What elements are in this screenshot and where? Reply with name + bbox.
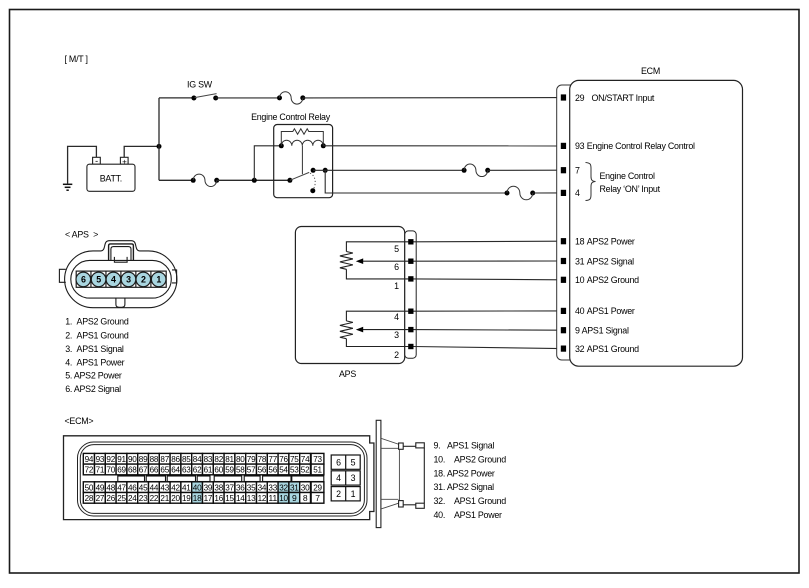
svg-text:21: 21	[160, 493, 169, 503]
svg-text:87: 87	[160, 454, 169, 464]
svg-text:7: 7	[575, 166, 580, 176]
svg-text:10: 10	[575, 275, 585, 285]
svg-text:1. APS2 Ground: 1. APS2 Ground	[65, 316, 129, 326]
connector ECM mounting bar	[376, 420, 381, 527]
svg-text:32. APS1 Ground: 32. APS1 Ground	[434, 496, 507, 506]
relay switch	[287, 168, 327, 193]
svg-text:APS1 Ground: APS1 Ground	[587, 344, 639, 354]
svg-text:6: 6	[336, 457, 341, 467]
svg-text:1: 1	[394, 281, 399, 291]
brace: pins 7 and 4 group	[586, 163, 596, 201]
svg-text:40: 40	[193, 482, 202, 492]
svg-text:18: 18	[193, 493, 202, 503]
svg-text:51: 51	[313, 465, 322, 475]
svg-text:46: 46	[128, 482, 137, 492]
svg-text:93: 93	[96, 454, 105, 464]
svg-text:52: 52	[301, 465, 310, 475]
connector APS pin 6	[76, 272, 91, 287]
svg-text:15: 15	[225, 493, 234, 503]
svg-text:22: 22	[150, 493, 159, 503]
potentiometer APS1	[340, 311, 409, 346]
svg-text:93: 93	[575, 141, 585, 151]
ECM pin 7	[561, 166, 580, 176]
svg-text:6. APS2 Signal: 6. APS2 Signal	[65, 384, 121, 394]
connector APS front view shell	[59, 241, 176, 308]
svg-text:11: 11	[268, 493, 277, 503]
wire: main feed vertical	[158, 98, 160, 180]
wire: ground to battery negative	[68, 146, 97, 184]
svg-text:33: 33	[268, 482, 277, 492]
wire: APS pin 2 to ECM 32	[414, 347, 561, 349]
svg-text:64: 64	[171, 465, 180, 475]
svg-text:77: 77	[268, 454, 277, 464]
svg-text:14: 14	[236, 493, 245, 503]
svg-text:18. APS2 Power: 18. APS2 Power	[434, 468, 495, 478]
connector APS pin 1	[151, 272, 166, 287]
svg-text:39: 39	[204, 482, 213, 492]
svg-text:75: 75	[290, 454, 299, 464]
APS strip pin 4	[408, 309, 413, 314]
svg-text:65: 65	[160, 465, 169, 475]
wire: relay contact down to ECM pin 4	[325, 170, 507, 193]
svg-text:9: 9	[292, 493, 297, 503]
ECM pin 31	[561, 256, 634, 266]
wire: feed to IG SW	[159, 97, 194, 99]
svg-text:35: 35	[247, 482, 256, 492]
wire: APS pin 6 to ECM 31	[414, 260, 561, 262]
svg-text:67: 67	[139, 465, 148, 475]
svg-text:44: 44	[150, 482, 159, 492]
svg-text:4: 4	[336, 473, 341, 483]
svg-text:31: 31	[290, 482, 299, 492]
svg-text:20: 20	[171, 493, 180, 503]
svg-text:APS2 Ground: APS2 Ground	[587, 275, 639, 285]
svg-text:61: 61	[204, 465, 213, 475]
svg-text:10. APS2 Ground: 10. APS2 Ground	[434, 455, 507, 465]
svg-text:40. APS1 Power: 40. APS1 Power	[434, 510, 503, 520]
svg-text:60: 60	[214, 465, 223, 475]
svg-text:56: 56	[268, 465, 277, 475]
svg-text:IG SW: IG SW	[187, 79, 213, 89]
svg-text:24: 24	[128, 493, 137, 503]
svg-text:29: 29	[575, 93, 585, 103]
svg-text:ECM: ECM	[641, 66, 660, 76]
fuse F1 (IG SW line)	[277, 92, 305, 104]
relay resistor	[281, 129, 323, 146]
svg-text:31: 31	[575, 256, 585, 266]
svg-text:<ECM>: <ECM>	[65, 416, 94, 426]
svg-text:38: 38	[214, 482, 223, 492]
connector ECM keying bars	[118, 476, 324, 482]
svg-text:74: 74	[301, 454, 310, 464]
svg-text:37: 37	[225, 482, 234, 492]
svg-text:92: 92	[106, 454, 115, 464]
svg-text:3. APS1 Signal: 3. APS1 Signal	[65, 344, 124, 354]
svg-text:56: 56	[258, 465, 267, 475]
wire: APS pin 3 to ECM 9	[414, 329, 561, 332]
svg-text:83: 83	[204, 454, 213, 464]
connector ECM pin grid row 3	[83, 482, 324, 493]
ECM pin 93	[561, 141, 695, 151]
svg-text:41: 41	[182, 482, 191, 492]
svg-text:29: 29	[313, 482, 322, 492]
svg-text:6: 6	[394, 262, 399, 272]
ECM pin 18	[561, 237, 635, 247]
APS sensor box	[295, 227, 404, 380]
svg-text:3: 3	[351, 473, 356, 483]
svg-text:ON/START Input: ON/START Input	[592, 93, 655, 103]
svg-text:27: 27	[96, 493, 105, 503]
svg-text:49: 49	[96, 482, 105, 492]
connector APS pin row housing	[76, 271, 166, 287]
wire: feed to lower fuse	[159, 179, 193, 181]
connector APS pin 4	[106, 272, 121, 287]
svg-text:1: 1	[351, 489, 356, 499]
svg-text:82: 82	[214, 454, 223, 464]
wire: fuse F4 to ECM pin 4	[533, 192, 561, 194]
svg-text:2: 2	[394, 350, 399, 360]
APS connector strip	[405, 231, 416, 358]
relay armature link	[301, 146, 303, 174]
svg-text:5: 5	[394, 244, 399, 254]
battery BATT.	[87, 156, 135, 192]
svg-text:APS: APS	[339, 369, 356, 379]
svg-text:2. APS1 Ground: 2. APS1 Ground	[65, 330, 129, 340]
svg-text:90: 90	[128, 454, 137, 464]
svg-text:26: 26	[106, 493, 115, 503]
ECM pin 9	[561, 326, 629, 336]
svg-text:69: 69	[117, 465, 126, 475]
svg-text:23: 23	[139, 493, 148, 503]
APS strip pin 3	[408, 327, 413, 332]
svg-text:78: 78	[258, 454, 267, 464]
svg-text:42: 42	[171, 482, 180, 492]
svg-text:5. APS2 Power: 5. APS2 Power	[65, 371, 122, 381]
svg-text:50: 50	[85, 482, 94, 492]
connector ECM pin grid row 2	[83, 464, 324, 475]
svg-text:Engine Control Relay Control: Engine Control Relay Control	[587, 141, 695, 151]
wire: relay coil to ECM pin 93	[323, 145, 561, 147]
svg-text:3: 3	[126, 275, 131, 285]
svg-text:45: 45	[139, 482, 148, 492]
svg-text:36: 36	[236, 482, 245, 492]
connector ECM pin grid row 4	[83, 493, 324, 504]
ground	[63, 184, 72, 190]
svg-text:7: 7	[315, 493, 320, 503]
fuse F4 (pin 4 line)	[505, 186, 536, 200]
svg-text:5: 5	[351, 457, 356, 467]
svg-text:54: 54	[279, 465, 288, 475]
svg-text:53: 53	[290, 465, 299, 475]
svg-text:10: 10	[279, 493, 288, 503]
connector ECM pin grid row 1	[83, 453, 324, 464]
ECM rear view pin legend	[434, 441, 507, 520]
svg-text:62: 62	[193, 465, 202, 475]
APS strip pin 2	[408, 344, 413, 349]
wire: fuse F2 to relay	[217, 179, 290, 181]
svg-text:84: 84	[193, 454, 202, 464]
svg-text:57: 57	[247, 465, 256, 475]
svg-text:89: 89	[139, 454, 148, 464]
ECM pin 10	[561, 275, 639, 285]
wire: APS pin 5 to ECM 18	[414, 240, 561, 243]
ECM pin 4	[561, 188, 580, 198]
APS strip pin 5	[408, 239, 413, 244]
svg-text:2: 2	[336, 489, 341, 499]
svg-text:32: 32	[575, 344, 585, 354]
svg-text:70: 70	[106, 465, 115, 475]
svg-text:6: 6	[81, 275, 86, 285]
svg-text:66: 66	[150, 465, 159, 475]
svg-text:Relay ‘ON’ Input: Relay ‘ON’ Input	[600, 184, 661, 194]
svg-text:79: 79	[247, 454, 256, 464]
ECM pin 29	[561, 93, 655, 103]
ECM pin 40	[561, 306, 635, 316]
svg-text:8: 8	[303, 493, 308, 503]
wire: IG SW to fuse	[216, 97, 280, 99]
svg-text:48: 48	[106, 482, 115, 492]
relay: Engine Control Relay box	[251, 112, 333, 198]
svg-text:25: 25	[117, 493, 126, 503]
wire: APS pin 4 to ECM 40	[414, 310, 561, 312]
svg-text:4. APS1 Power: 4. APS1 Power	[65, 358, 124, 368]
svg-text:31. APS2 Signal: 31. APS2 Signal	[434, 482, 495, 492]
connector ECM aux pin grid 1-6	[331, 455, 360, 501]
connector APS pin 3	[121, 272, 136, 287]
svg-text:4: 4	[111, 275, 116, 285]
svg-text:APS1 Signal: APS1 Signal	[582, 326, 629, 336]
svg-text:34: 34	[258, 482, 267, 492]
svg-text:APS1 Power: APS1 Power	[587, 306, 635, 316]
svg-text:17: 17	[204, 493, 213, 503]
APS pin legend	[65, 316, 129, 394]
svg-text:32: 32	[279, 482, 288, 492]
svg-text:5: 5	[96, 275, 101, 285]
svg-text:< APS >: < APS >	[65, 230, 98, 240]
svg-text:76: 76	[279, 454, 288, 464]
connector APS pin 5	[91, 272, 106, 287]
connector ECM wire cover	[381, 438, 400, 509]
wire: branch to relay coil	[254, 146, 281, 181]
svg-text:73: 73	[313, 454, 322, 464]
svg-text:91: 91	[117, 454, 126, 464]
svg-text:47: 47	[117, 482, 126, 492]
svg-text:4: 4	[394, 312, 399, 322]
wire: relay contact to ECM pin 7	[313, 169, 464, 171]
connector APS front view label	[65, 230, 98, 240]
ECM connector shell	[557, 85, 577, 360]
svg-text:59: 59	[225, 465, 234, 475]
wire: battery positive to junction	[124, 146, 159, 157]
svg-text:40: 40	[575, 306, 585, 316]
label: Engine Control Relay ON Input	[600, 171, 661, 194]
svg-text:88: 88	[150, 454, 159, 464]
svg-text:1: 1	[156, 275, 161, 285]
svg-text:43: 43	[160, 482, 169, 492]
svg-text:APS2 Signal: APS2 Signal	[587, 256, 634, 266]
connector APS pin 2	[136, 272, 151, 287]
svg-text:[ M/T ]: [ M/T ]	[65, 54, 88, 64]
switch IG SW	[187, 79, 218, 100]
svg-text:81: 81	[225, 454, 234, 464]
svg-text:85: 85	[182, 454, 191, 464]
svg-text:68: 68	[128, 465, 137, 475]
svg-text:APS2 Power: APS2 Power	[587, 237, 635, 247]
svg-text:9: 9	[575, 326, 580, 336]
svg-text:Engine Control Relay: Engine Control Relay	[251, 112, 331, 122]
svg-text:30: 30	[301, 482, 310, 492]
svg-text:9. APS1 Signal: 9. APS1 Signal	[434, 441, 495, 451]
wire: fuse to ECM pin 29	[303, 97, 561, 99]
fuse F2 (battery feed)	[191, 174, 220, 186]
svg-text:BATT.: BATT.	[100, 174, 122, 184]
APS strip pin 6	[408, 259, 413, 264]
svg-text:3: 3	[394, 330, 399, 340]
svg-text:Engine Control: Engine Control	[600, 171, 655, 181]
svg-text:4: 4	[575, 188, 580, 198]
svg-text:80: 80	[236, 454, 245, 464]
wire: fuse F3 to ECM pin 7	[488, 169, 561, 171]
potentiometer APS2	[340, 242, 409, 279]
ECM box	[570, 66, 743, 366]
svg-text:16: 16	[214, 493, 223, 503]
svg-text:19: 19	[182, 493, 191, 503]
svg-text:71: 71	[96, 465, 105, 475]
note M/T	[65, 54, 88, 64]
svg-text:72: 72	[85, 465, 94, 475]
junction: relay coil branch	[252, 178, 257, 183]
fuse F3 (pin 7 line)	[462, 164, 491, 177]
svg-text:2: 2	[141, 275, 146, 285]
svg-text:12: 12	[258, 493, 267, 503]
svg-text:86: 86	[171, 454, 180, 464]
svg-text:94: 94	[85, 454, 94, 464]
connector ECM rear housing	[64, 436, 374, 520]
svg-text:28: 28	[85, 493, 94, 503]
svg-text:63: 63	[182, 465, 191, 475]
wire: APS pin 1 to ECM 10	[414, 278, 561, 281]
junction: battery feed node	[157, 144, 162, 149]
connector ECM rear view label	[65, 416, 94, 426]
ECM pin 32	[561, 344, 639, 354]
relay coil	[279, 140, 326, 148]
svg-text:18: 18	[575, 237, 585, 247]
svg-text:13: 13	[247, 493, 256, 503]
svg-text:58: 58	[236, 465, 245, 475]
APS strip pin 1	[408, 276, 413, 281]
